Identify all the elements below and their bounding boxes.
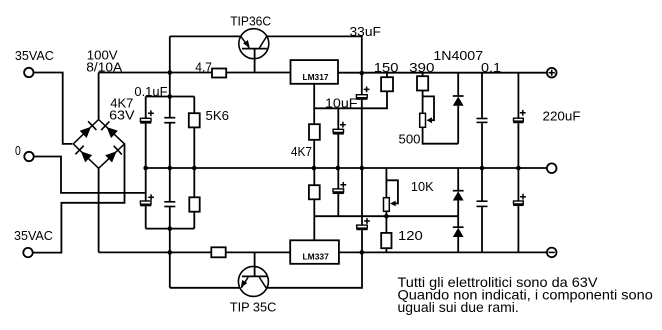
transistor Q2 TIP35C body bbox=[238, 266, 268, 296]
node negative raw junction bbox=[168, 250, 173, 255]
wire filter bank bottom rail bbox=[146, 228, 195, 230]
Q2 base bar bbox=[242, 275, 267, 277]
potentiometer P1 500 body bbox=[420, 113, 426, 127]
node LM317 output junction bbox=[360, 71, 365, 76]
potentiometer P2 10K body bbox=[385, 168, 387, 198]
bridge diode D2 (AC-right to +) cathode bar bbox=[101, 121, 109, 130]
svg-text:LM317: LM317 bbox=[303, 72, 329, 82]
svg-text:LM337: LM337 bbox=[303, 251, 330, 261]
terminal J2 0V center tap bbox=[24, 152, 33, 161]
resistor R3 4.7 (TIP36C base) bbox=[212, 69, 226, 78]
wire U2 ADJ horizontal bbox=[314, 215, 458, 217]
terminal J6 negative output bbox=[547, 248, 557, 258]
resistor R1 5K6 upper bleeder bbox=[193, 97, 195, 114]
bridge diode D4 (- to AC-right) cathode bar bbox=[114, 146, 122, 155]
svg-text:4K7: 4K7 bbox=[291, 144, 312, 159]
node mid rail 220uF bbox=[516, 166, 521, 171]
Q2 emitter lead bbox=[241, 277, 248, 288]
node mid rail 10uF bbox=[336, 166, 341, 171]
wire LM317 output rail (+) bbox=[338, 72, 547, 74]
bridge diode D1 (AC-left to +) arrow bbox=[80, 127, 91, 138]
svg-text:TIP 35C: TIP 35C bbox=[230, 299, 277, 314]
bridge diode D2 (AC-right to +) arrow bbox=[107, 127, 118, 138]
P1 bottom wire to D5 bbox=[423, 127, 459, 143]
bridge diode D3 (- to AC-left) arrow bbox=[81, 151, 92, 162]
wire J1 to bridge AC-left bbox=[34, 73, 73, 144]
diode D7 1N4007 (lower, -out side) bbox=[457, 216, 459, 227]
J4 + symbol bbox=[549, 70, 555, 76]
J6 - symbol bbox=[549, 251, 555, 253]
svg-text:5K6: 5K6 bbox=[206, 108, 230, 123]
wire filter bank top rail bbox=[146, 96, 195, 98]
Q1 collector lead bbox=[260, 36, 267, 47]
P2 wiper arrow bbox=[390, 201, 396, 207]
wire TIP36C collector top rail bbox=[267, 36, 362, 73]
P1 wiper arrow bbox=[426, 117, 432, 123]
svg-text:0: 0 bbox=[15, 143, 21, 158]
terminal J5 0V output bbox=[547, 163, 557, 173]
diode D5 1N4007 (upper protection) bbox=[457, 73, 459, 96]
svg-text:TIP36C: TIP36C bbox=[230, 14, 271, 29]
resistor R7 4.7 lower (TIP35C base) bbox=[211, 247, 225, 257]
bridge diode D3 (- to AC-left) cathode bar bbox=[75, 146, 83, 155]
terminal J3 35VAC bottom bbox=[23, 248, 32, 257]
capacitor C12 220uF lower output bbox=[517, 168, 519, 201]
svg-text:10uF: 10uF bbox=[325, 96, 358, 111]
svg-text:120: 120 bbox=[398, 228, 423, 243]
bridge diode D4 (- to AC-right) arrow bbox=[105, 151, 116, 162]
C5 + sign bbox=[340, 122, 346, 128]
wire Q2 emitter rail to raw negative bbox=[170, 287, 240, 289]
wire riser bank mid column bbox=[169, 73, 171, 288]
svg-text:uguali sui due rami.: uguali sui due rami. bbox=[398, 300, 519, 315]
svg-text:150: 150 bbox=[374, 60, 399, 75]
svg-text:220uF: 220uF bbox=[543, 108, 581, 123]
capacitor C10 33uF lower (U2 output) bbox=[361, 168, 363, 225]
Q2 emitter arrow (NPN) bbox=[241, 280, 247, 288]
capacitor C1 4700uF upper (electrolytic) bbox=[145, 97, 147, 119]
wire LM337 output rail (-) bbox=[339, 251, 547, 253]
Q1 base lead bbox=[254, 49, 256, 73]
wire 0V mid rail bbox=[146, 167, 547, 169]
C12 + sign bbox=[520, 194, 526, 200]
C8 + sign bbox=[520, 110, 526, 116]
svg-text:390: 390 bbox=[409, 60, 434, 75]
wire raw rail riser to emitter rail bbox=[169, 36, 171, 72]
wire J3 to bridge AC-right bbox=[33, 144, 125, 253]
transistor Q1 TIP36C body bbox=[239, 29, 269, 59]
resistor R6 390 (U1 trim chain) bbox=[422, 73, 424, 76]
wire positive raw rail bbox=[99, 72, 291, 74]
C10 + sign bbox=[364, 218, 370, 224]
capacitor C2 0.1uF upper (film) bbox=[164, 117, 175, 119]
node mid rail 33uF bbox=[360, 166, 365, 171]
C1 + sign bbox=[148, 110, 154, 116]
resistor R5 150 (U1) bbox=[386, 73, 388, 77]
resistor R4 4K7 (U1 ADJ to 0V) bbox=[309, 124, 320, 140]
regulator U1 LM317 box bbox=[291, 60, 339, 84]
svg-text:0.1uF: 0.1uF bbox=[134, 84, 167, 99]
wire U2 ADJ lead bbox=[313, 199, 315, 240]
svg-text:33uF: 33uF bbox=[350, 24, 381, 39]
svg-text:63V: 63V bbox=[109, 108, 135, 123]
C3 + sign bbox=[148, 194, 154, 200]
node mid rail C1 bbox=[143, 166, 148, 171]
svg-text:500: 500 bbox=[399, 132, 421, 147]
svg-text:1N4007: 1N4007 bbox=[433, 48, 483, 63]
wire U1 ADJ horizontal bbox=[314, 91, 387, 108]
bridge diode D1 (AC-left to +) cathode bar bbox=[88, 121, 96, 130]
wire U1 ADJ lead bbox=[313, 84, 315, 124]
node filter bank top junction bbox=[168, 94, 173, 99]
terminal J1 35VAC top bbox=[24, 68, 33, 77]
resistor R9 120 (U2) bbox=[381, 233, 391, 248]
svg-text:0.1: 0.1 bbox=[481, 60, 501, 75]
node LM337 output junction bbox=[360, 250, 365, 255]
capacitor C11 0.1 lower output bbox=[481, 168, 483, 201]
diode D6 1N4007 (lower, 0V side) bbox=[457, 168, 459, 191]
P1 wiper link bbox=[423, 96, 434, 120]
Q2 collector lead bbox=[259, 277, 266, 288]
resistor R2 5K6 lower bleeder bbox=[193, 168, 195, 197]
node mid rail 4K7 bbox=[312, 166, 317, 171]
svg-text:35VAC: 35VAC bbox=[15, 48, 54, 63]
capacitor C3 4700uF lower (electrolytic) bbox=[145, 168, 147, 201]
svg-text:4.7: 4.7 bbox=[195, 60, 212, 75]
node mid rail 0.1 bbox=[480, 166, 485, 171]
negative raw rail bbox=[99, 251, 291, 253]
bridge rectifier B1 diamond frame bbox=[73, 120, 124, 169]
Q1 emitter lead bbox=[241, 36, 249, 47]
terminal J4 positive output bbox=[547, 68, 557, 78]
C6 + sign bbox=[364, 87, 370, 93]
node P2 bottom junction bbox=[385, 211, 387, 233]
capacitor C5 10uF (U1 ADJ) bbox=[337, 108, 339, 129]
node mid rail R1 bbox=[192, 166, 197, 171]
C9 + sign bbox=[340, 182, 346, 188]
wire bridge + output up bbox=[98, 73, 100, 120]
P2 wiper link bbox=[386, 180, 398, 203]
regulator U2 LM337 box bbox=[290, 240, 339, 263]
Q1 base bar bbox=[242, 48, 267, 50]
capacitor C7 0.1 upper output bbox=[481, 73, 483, 118]
node filter bank bottom junction bbox=[168, 226, 173, 231]
wire bridge - output down bbox=[98, 168, 100, 252]
node mid rail C2 bbox=[168, 166, 173, 171]
wire J2 to filter midpoint bbox=[34, 157, 145, 193]
wire Q2 collector rail to -out node bbox=[267, 252, 362, 287]
capacitor C8 220uF upper output bbox=[517, 73, 519, 118]
capacitor C6 33uF (U1 output) bbox=[361, 73, 363, 95]
capacitor C9 10uF lower (U2 ADJ) bbox=[337, 168, 339, 189]
node positive raw rail junction bbox=[168, 70, 173, 75]
capacitor C4 0.1uF lower (film) bbox=[164, 201, 175, 203]
wire TIP36C emitter top rail bbox=[170, 35, 241, 37]
Q1 emitter arrow (PNP) bbox=[243, 40, 250, 48]
svg-text:35VAC: 35VAC bbox=[14, 228, 53, 243]
Q2 base lead bbox=[254, 252, 256, 276]
svg-text:10K: 10K bbox=[411, 179, 434, 194]
resistor R8 4K7 lower (U2 ADJ to 0V) bbox=[309, 185, 320, 199]
